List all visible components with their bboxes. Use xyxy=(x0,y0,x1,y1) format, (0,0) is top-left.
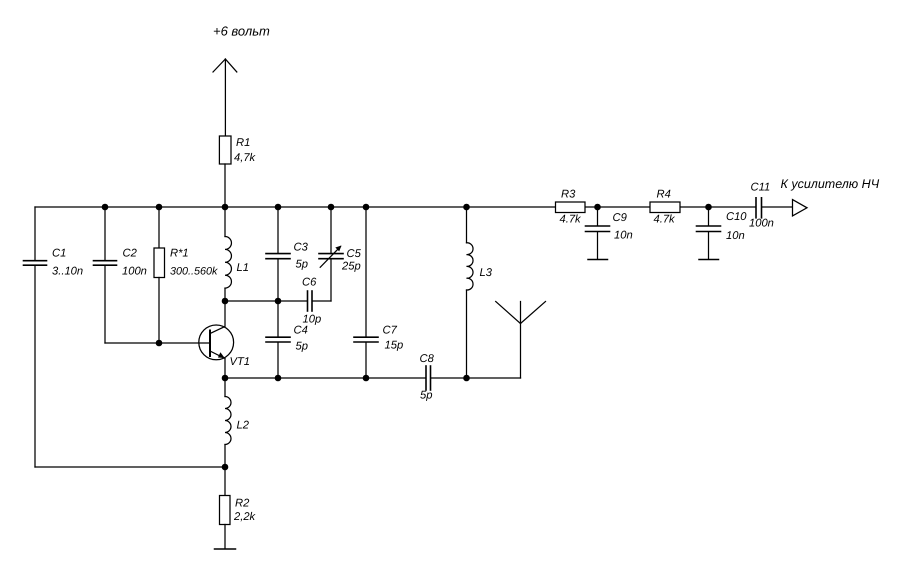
svg-text:L2: L2 xyxy=(237,420,250,432)
capacitor C4 xyxy=(266,301,290,378)
junction collector node xyxy=(222,298,229,305)
svg-text:C8: C8 xyxy=(420,353,435,365)
wire C8 to antenna xyxy=(431,377,521,379)
svg-text:10n: 10n xyxy=(614,230,633,242)
junction bus C2 xyxy=(102,204,109,211)
svg-text:4.7k: 4.7k xyxy=(560,214,583,226)
output terminal triangle xyxy=(793,200,808,216)
svg-text:C6: C6 xyxy=(302,277,317,289)
wire L2 to R2 xyxy=(224,467,226,496)
svg-text:L1: L1 xyxy=(237,262,249,274)
junction bus C9 xyxy=(594,204,601,211)
svg-text:2,2k: 2,2k xyxy=(233,511,257,523)
antenna xyxy=(496,302,546,379)
junction emitter rail L3 xyxy=(463,375,470,382)
junction C3/C4/C6 node xyxy=(275,298,282,305)
svg-text:C4: C4 xyxy=(294,325,308,337)
svg-text:C3: C3 xyxy=(294,242,309,254)
power arrow +6V xyxy=(213,59,237,72)
wire C11 to output terminal xyxy=(762,206,793,208)
svg-text:C7: C7 xyxy=(383,325,398,337)
svg-text:C5: C5 xyxy=(347,248,362,260)
inductor L1 xyxy=(225,207,231,301)
capacitor C6 xyxy=(308,291,332,311)
capacitor C8 xyxy=(426,366,431,390)
wire main horizontal bus xyxy=(35,206,556,208)
resistor R2 xyxy=(220,496,231,525)
junction emitter node xyxy=(222,375,229,382)
inductor L3 xyxy=(467,207,474,378)
wire bus R4 to C11 xyxy=(680,206,756,208)
wire collector node to C6 xyxy=(225,300,307,302)
svg-text:К усилителю НЧ: К усилителю НЧ xyxy=(781,177,880,191)
ground bar C10 xyxy=(699,259,719,261)
junction bus R1/L1 xyxy=(222,204,229,211)
svg-text:4.7k: 4.7k xyxy=(654,214,677,226)
svg-text:+6 вольт: +6 вольт xyxy=(213,24,270,39)
svg-text:R4: R4 xyxy=(657,189,671,201)
ground xyxy=(215,525,236,550)
junction emitter rail C4 xyxy=(275,375,282,382)
capacitor C3 xyxy=(266,207,290,301)
junction bus L3 xyxy=(463,204,470,211)
svg-text:R3: R3 xyxy=(561,189,576,201)
svg-text:100n: 100n xyxy=(749,218,774,230)
capacitor C7 xyxy=(354,207,378,378)
svg-text:5p: 5p xyxy=(296,341,308,353)
wire base rail C2 to VT1 base xyxy=(105,342,210,344)
junction bus C3 xyxy=(275,204,282,211)
resistor R1 xyxy=(219,136,231,164)
junction L2/R2 left rail xyxy=(222,464,229,471)
wire +6V arrow to R1 xyxy=(224,59,226,136)
wire bus R3 to R4 xyxy=(585,206,650,208)
svg-text:R*1: R*1 xyxy=(170,248,189,260)
junction bus C7 xyxy=(363,204,370,211)
junction bus C5 xyxy=(328,204,335,211)
capacitor C2 xyxy=(94,207,117,343)
svg-text:25p: 25p xyxy=(341,261,361,273)
svg-text:5p: 5p xyxy=(296,259,308,271)
junction emitter rail C7 xyxy=(363,375,370,382)
resistor R4 xyxy=(650,202,680,213)
svg-text:C2: C2 xyxy=(123,248,138,260)
svg-text:300..560k: 300..560k xyxy=(170,266,218,278)
junction bus C10 xyxy=(705,204,712,211)
svg-text:15p: 15p xyxy=(385,340,404,352)
svg-text:R1: R1 xyxy=(236,137,250,149)
svg-text:C11: C11 xyxy=(751,182,771,194)
junction base R*1 node xyxy=(156,340,163,347)
wire R1 to bus xyxy=(224,164,226,207)
ground bar C9 xyxy=(588,259,608,261)
svg-text:R2: R2 xyxy=(235,498,250,510)
inductor L2 xyxy=(225,378,231,467)
svg-text:3..10n: 3..10n xyxy=(52,266,83,278)
capacitor C11 xyxy=(756,198,762,218)
svg-text:L3: L3 xyxy=(480,267,493,279)
svg-text:C10: C10 xyxy=(726,211,747,223)
resistor R*1 xyxy=(154,207,165,343)
transistor VT1 xyxy=(199,301,234,378)
svg-text:100n: 100n xyxy=(122,266,147,278)
capacitor C5 variable xyxy=(319,207,343,301)
svg-text:5p: 5p xyxy=(420,390,432,402)
svg-text:4,7k: 4,7k xyxy=(234,152,257,164)
capacitor C10 xyxy=(697,207,721,259)
svg-text:C1: C1 xyxy=(52,248,66,260)
wire emitter rail xyxy=(225,377,426,379)
svg-text:C9: C9 xyxy=(613,212,627,224)
svg-text:10n: 10n xyxy=(726,230,745,242)
svg-text:VT1: VT1 xyxy=(230,356,251,368)
capacitor C1 xyxy=(24,207,47,467)
capacitor C9 xyxy=(586,207,610,259)
junction bus R*1 xyxy=(156,204,163,211)
wire bottom-left rail xyxy=(35,466,225,468)
resistor R3 xyxy=(556,202,586,213)
